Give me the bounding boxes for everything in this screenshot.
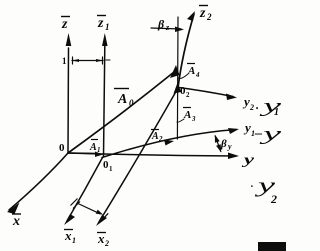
- svg-text:x: x: [12, 214, 20, 229]
- svg-text:2: 2: [270, 192, 277, 206]
- svg-text:2: 2: [206, 12, 212, 22]
- svg-text:1: 1: [72, 236, 76, 245]
- svg-text:2: 2: [249, 103, 254, 112]
- svg-text:A: A: [89, 142, 97, 153]
- svg-text:.: .: [256, 98, 259, 112]
- svg-text:1: 1: [105, 22, 110, 32]
- svg-text:1: 1: [97, 146, 101, 154]
- svg-text:0: 0: [129, 98, 134, 108]
- svg-text:1: 1: [274, 107, 279, 118]
- svg-text:β: β: [157, 17, 165, 31]
- svg-text:1: 1: [109, 165, 113, 173]
- svg-text:β: β: [220, 138, 227, 150]
- svg-text:2: 2: [186, 91, 190, 99]
- svg-text:z: z: [61, 17, 68, 32]
- svg-text:y: y: [227, 142, 232, 151]
- svg-text:2: 2: [158, 135, 163, 143]
- svg-text:y: y: [242, 94, 250, 109]
- svg-text:A: A: [117, 92, 127, 107]
- svg-text:4: 4: [195, 71, 200, 79]
- svg-text:y: y: [243, 120, 251, 135]
- svg-text:x: x: [97, 231, 105, 246]
- svg-text:z: z: [199, 6, 206, 21]
- svg-text:z: z: [97, 16, 104, 31]
- svg-text:A: A: [151, 131, 159, 142]
- svg-text:–: –: [254, 126, 262, 141]
- svg-text:0: 0: [59, 142, 65, 154]
- svg-text:.: .: [251, 179, 254, 190]
- svg-text:y: y: [259, 124, 282, 145]
- svg-text:3: 3: [191, 115, 196, 123]
- svg-text:A: A: [183, 109, 191, 121]
- svg-text:x: x: [64, 228, 72, 243]
- svg-text:2: 2: [104, 239, 109, 248]
- svg-text:1: 1: [62, 56, 67, 66]
- svg-text:A: A: [187, 65, 195, 77]
